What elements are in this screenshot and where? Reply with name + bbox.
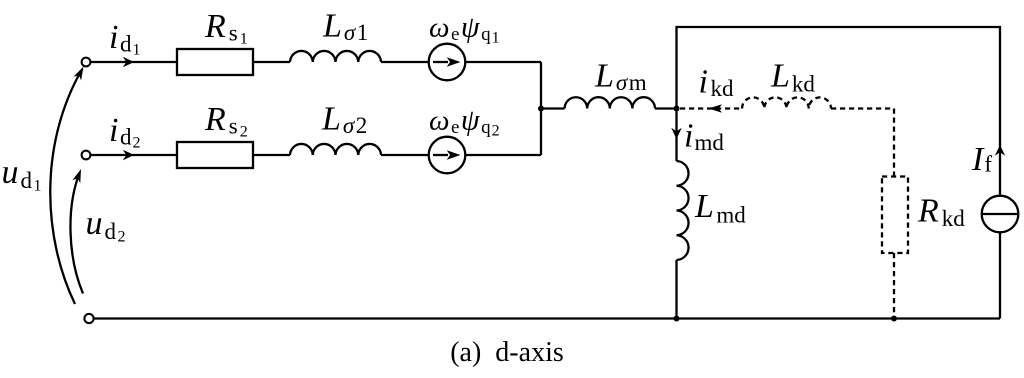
- svg-text:(a) d-axis: (a) d-axis: [450, 337, 564, 368]
- svg-text:If: If: [971, 141, 992, 178]
- svg-text:Rkd: Rkd: [917, 193, 965, 232]
- svg-text:ωeψq1: ωeψq1: [429, 11, 500, 47]
- svg-text:ud1: ud1: [2, 154, 42, 195]
- svg-text:Lσ1: Lσ1: [322, 8, 368, 46]
- svg-text:Lσm: Lσm: [594, 58, 647, 96]
- svg-text:Rs1: Rs1: [204, 8, 248, 48]
- svg-text:Lkd: Lkd: [770, 58, 815, 97]
- svg-text:ikd: ikd: [699, 64, 734, 102]
- svg-text:Lσ2: Lσ2: [321, 101, 367, 139]
- svg-text:id2: id2: [109, 112, 140, 152]
- svg-text:ud2: ud2: [86, 205, 126, 246]
- svg-text:Lmd: Lmd: [694, 188, 746, 228]
- svg-text:imd: imd: [684, 118, 724, 156]
- svg-text:ωeψq2: ωeψq2: [429, 104, 500, 140]
- svg-text:Rs2: Rs2: [204, 101, 248, 141]
- svg-text:id1: id1: [109, 19, 140, 59]
